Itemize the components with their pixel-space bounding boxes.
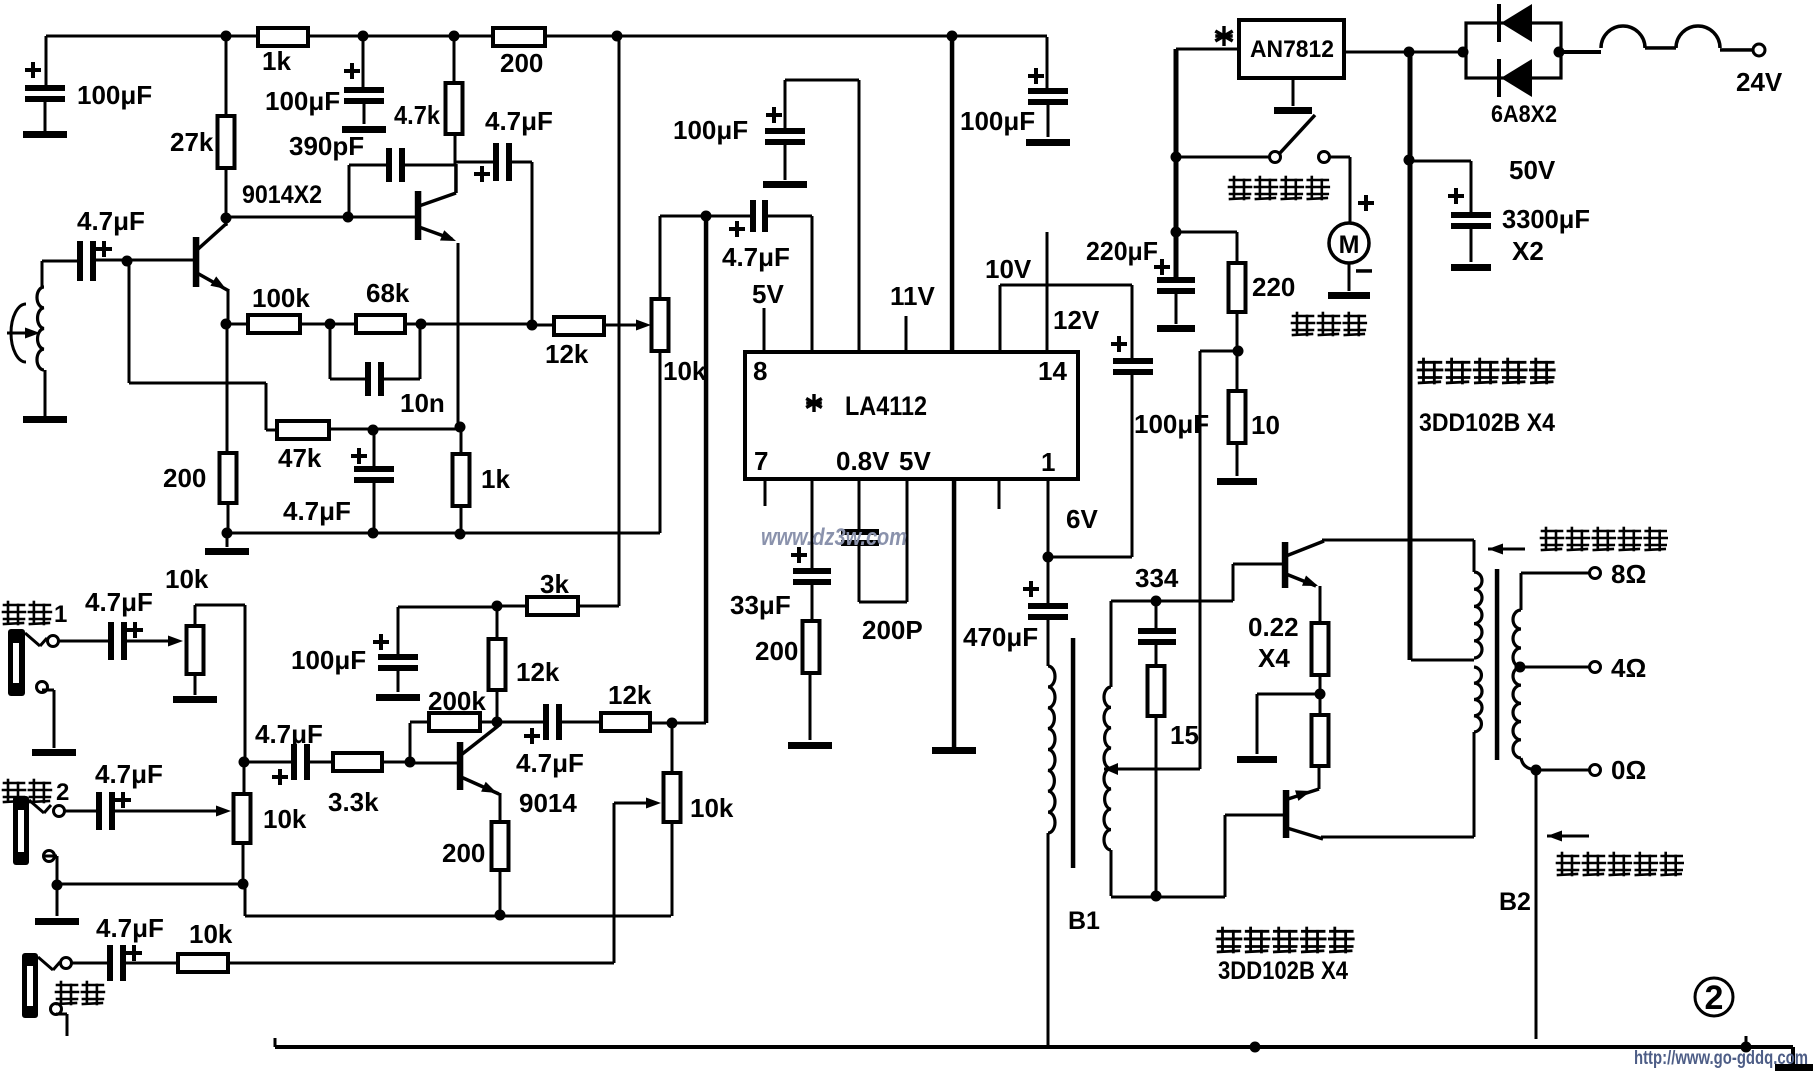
svg-text:200k: 200k — [428, 686, 486, 716]
svg-text:10n: 10n — [400, 388, 445, 418]
svg-text:3300μF: 3300μF — [1502, 204, 1590, 234]
svg-text:200: 200 — [442, 838, 485, 868]
svg-text:5V: 5V — [752, 279, 784, 309]
svg-text:7: 7 — [754, 446, 768, 476]
svg-text:50V: 50V — [1509, 155, 1556, 185]
svg-text:100μF: 100μF — [77, 80, 152, 110]
svg-text:12k: 12k — [545, 339, 589, 369]
svg-text:4.7k: 4.7k — [394, 100, 440, 130]
svg-text:4.7μF: 4.7μF — [485, 106, 553, 136]
svg-text:M: M — [1339, 231, 1360, 259]
svg-text:9014X2: 9014X2 — [242, 181, 322, 209]
svg-text:www.dz3w.com: www.dz3w.com — [761, 524, 907, 551]
svg-text:100μF: 100μF — [673, 115, 748, 145]
svg-text:220μF: 220μF — [1086, 236, 1158, 266]
svg-text:200P: 200P — [862, 615, 923, 645]
svg-text:68k: 68k — [366, 278, 410, 308]
svg-text:2: 2 — [56, 779, 69, 806]
svg-text:3.3k: 3.3k — [328, 787, 379, 817]
svg-text:4.7μF: 4.7μF — [722, 242, 790, 272]
svg-text:LA4112: LA4112 — [845, 391, 927, 421]
svg-text:33μF: 33μF — [730, 590, 791, 620]
svg-text:4.7μF: 4.7μF — [255, 719, 323, 749]
svg-text:220: 220 — [1252, 272, 1295, 302]
svg-text:5V: 5V — [899, 446, 931, 476]
svg-text:1k: 1k — [481, 464, 510, 494]
svg-text:10V: 10V — [985, 254, 1032, 284]
svg-text:200: 200 — [163, 463, 206, 493]
svg-text:http://www.go-gddq.com: http://www.go-gddq.com — [1634, 1048, 1808, 1069]
svg-text:0.8V: 0.8V — [836, 446, 890, 476]
svg-text:100μF: 100μF — [265, 86, 340, 116]
svg-text:200: 200 — [755, 636, 798, 666]
svg-text:3k: 3k — [540, 569, 569, 599]
svg-text:12k: 12k — [608, 680, 652, 710]
svg-text:B2: B2 — [1499, 888, 1531, 916]
svg-text:10k: 10k — [690, 793, 734, 823]
svg-text:1k: 1k — [262, 46, 291, 76]
svg-text:10k: 10k — [165, 564, 209, 594]
svg-text:8: 8 — [753, 356, 767, 386]
svg-text:10k: 10k — [189, 919, 233, 949]
svg-text:4.7μF: 4.7μF — [283, 496, 351, 526]
svg-text:4.7μF: 4.7μF — [77, 206, 145, 236]
svg-text:X4: X4 — [1258, 643, 1290, 673]
svg-text:4.7μF: 4.7μF — [95, 759, 163, 789]
svg-text:24V: 24V — [1736, 67, 1783, 97]
svg-text:AN7812: AN7812 — [1250, 36, 1334, 63]
svg-text:14: 14 — [1038, 356, 1067, 386]
svg-text:100μF: 100μF — [960, 106, 1035, 136]
svg-text:8Ω: 8Ω — [1611, 559, 1646, 589]
svg-text:27k: 27k — [170, 127, 214, 157]
svg-text:200: 200 — [500, 48, 543, 78]
svg-text:10k: 10k — [663, 356, 707, 386]
svg-text:1: 1 — [54, 601, 67, 628]
svg-text:11V: 11V — [890, 281, 935, 311]
svg-text:12k: 12k — [516, 657, 560, 687]
svg-text:6V: 6V — [1066, 504, 1098, 534]
svg-text:15: 15 — [1170, 720, 1199, 750]
svg-text:0Ω: 0Ω — [1611, 755, 1646, 785]
svg-text:100μF: 100μF — [291, 645, 366, 675]
svg-text:3DD102B X4: 3DD102B X4 — [1419, 409, 1555, 437]
svg-text:9014: 9014 — [519, 788, 577, 818]
svg-text:10: 10 — [1251, 410, 1280, 440]
svg-text:100μF: 100μF — [1134, 409, 1209, 439]
svg-text:47k: 47k — [278, 443, 322, 473]
svg-text:1: 1 — [1041, 447, 1055, 477]
svg-text:2: 2 — [1705, 979, 1724, 1017]
svg-text:470μF: 470μF — [963, 622, 1038, 652]
svg-text:4.7μF: 4.7μF — [516, 748, 584, 778]
svg-text:100k: 100k — [252, 283, 310, 313]
svg-text:10k: 10k — [263, 804, 307, 834]
svg-text:4Ω: 4Ω — [1611, 653, 1646, 683]
svg-text:4.7μF: 4.7μF — [96, 913, 164, 943]
svg-text:B1: B1 — [1068, 907, 1100, 935]
svg-text:6A8X2: 6A8X2 — [1491, 101, 1557, 128]
svg-text:390pF: 390pF — [289, 131, 364, 161]
svg-text:0.22: 0.22 — [1248, 612, 1299, 642]
svg-text:334: 334 — [1135, 563, 1179, 593]
svg-text:X2: X2 — [1512, 236, 1544, 266]
svg-text:12V: 12V — [1053, 305, 1100, 335]
svg-text:4.7μF: 4.7μF — [85, 587, 153, 617]
svg-text:3DD102B X4: 3DD102B X4 — [1218, 957, 1348, 985]
